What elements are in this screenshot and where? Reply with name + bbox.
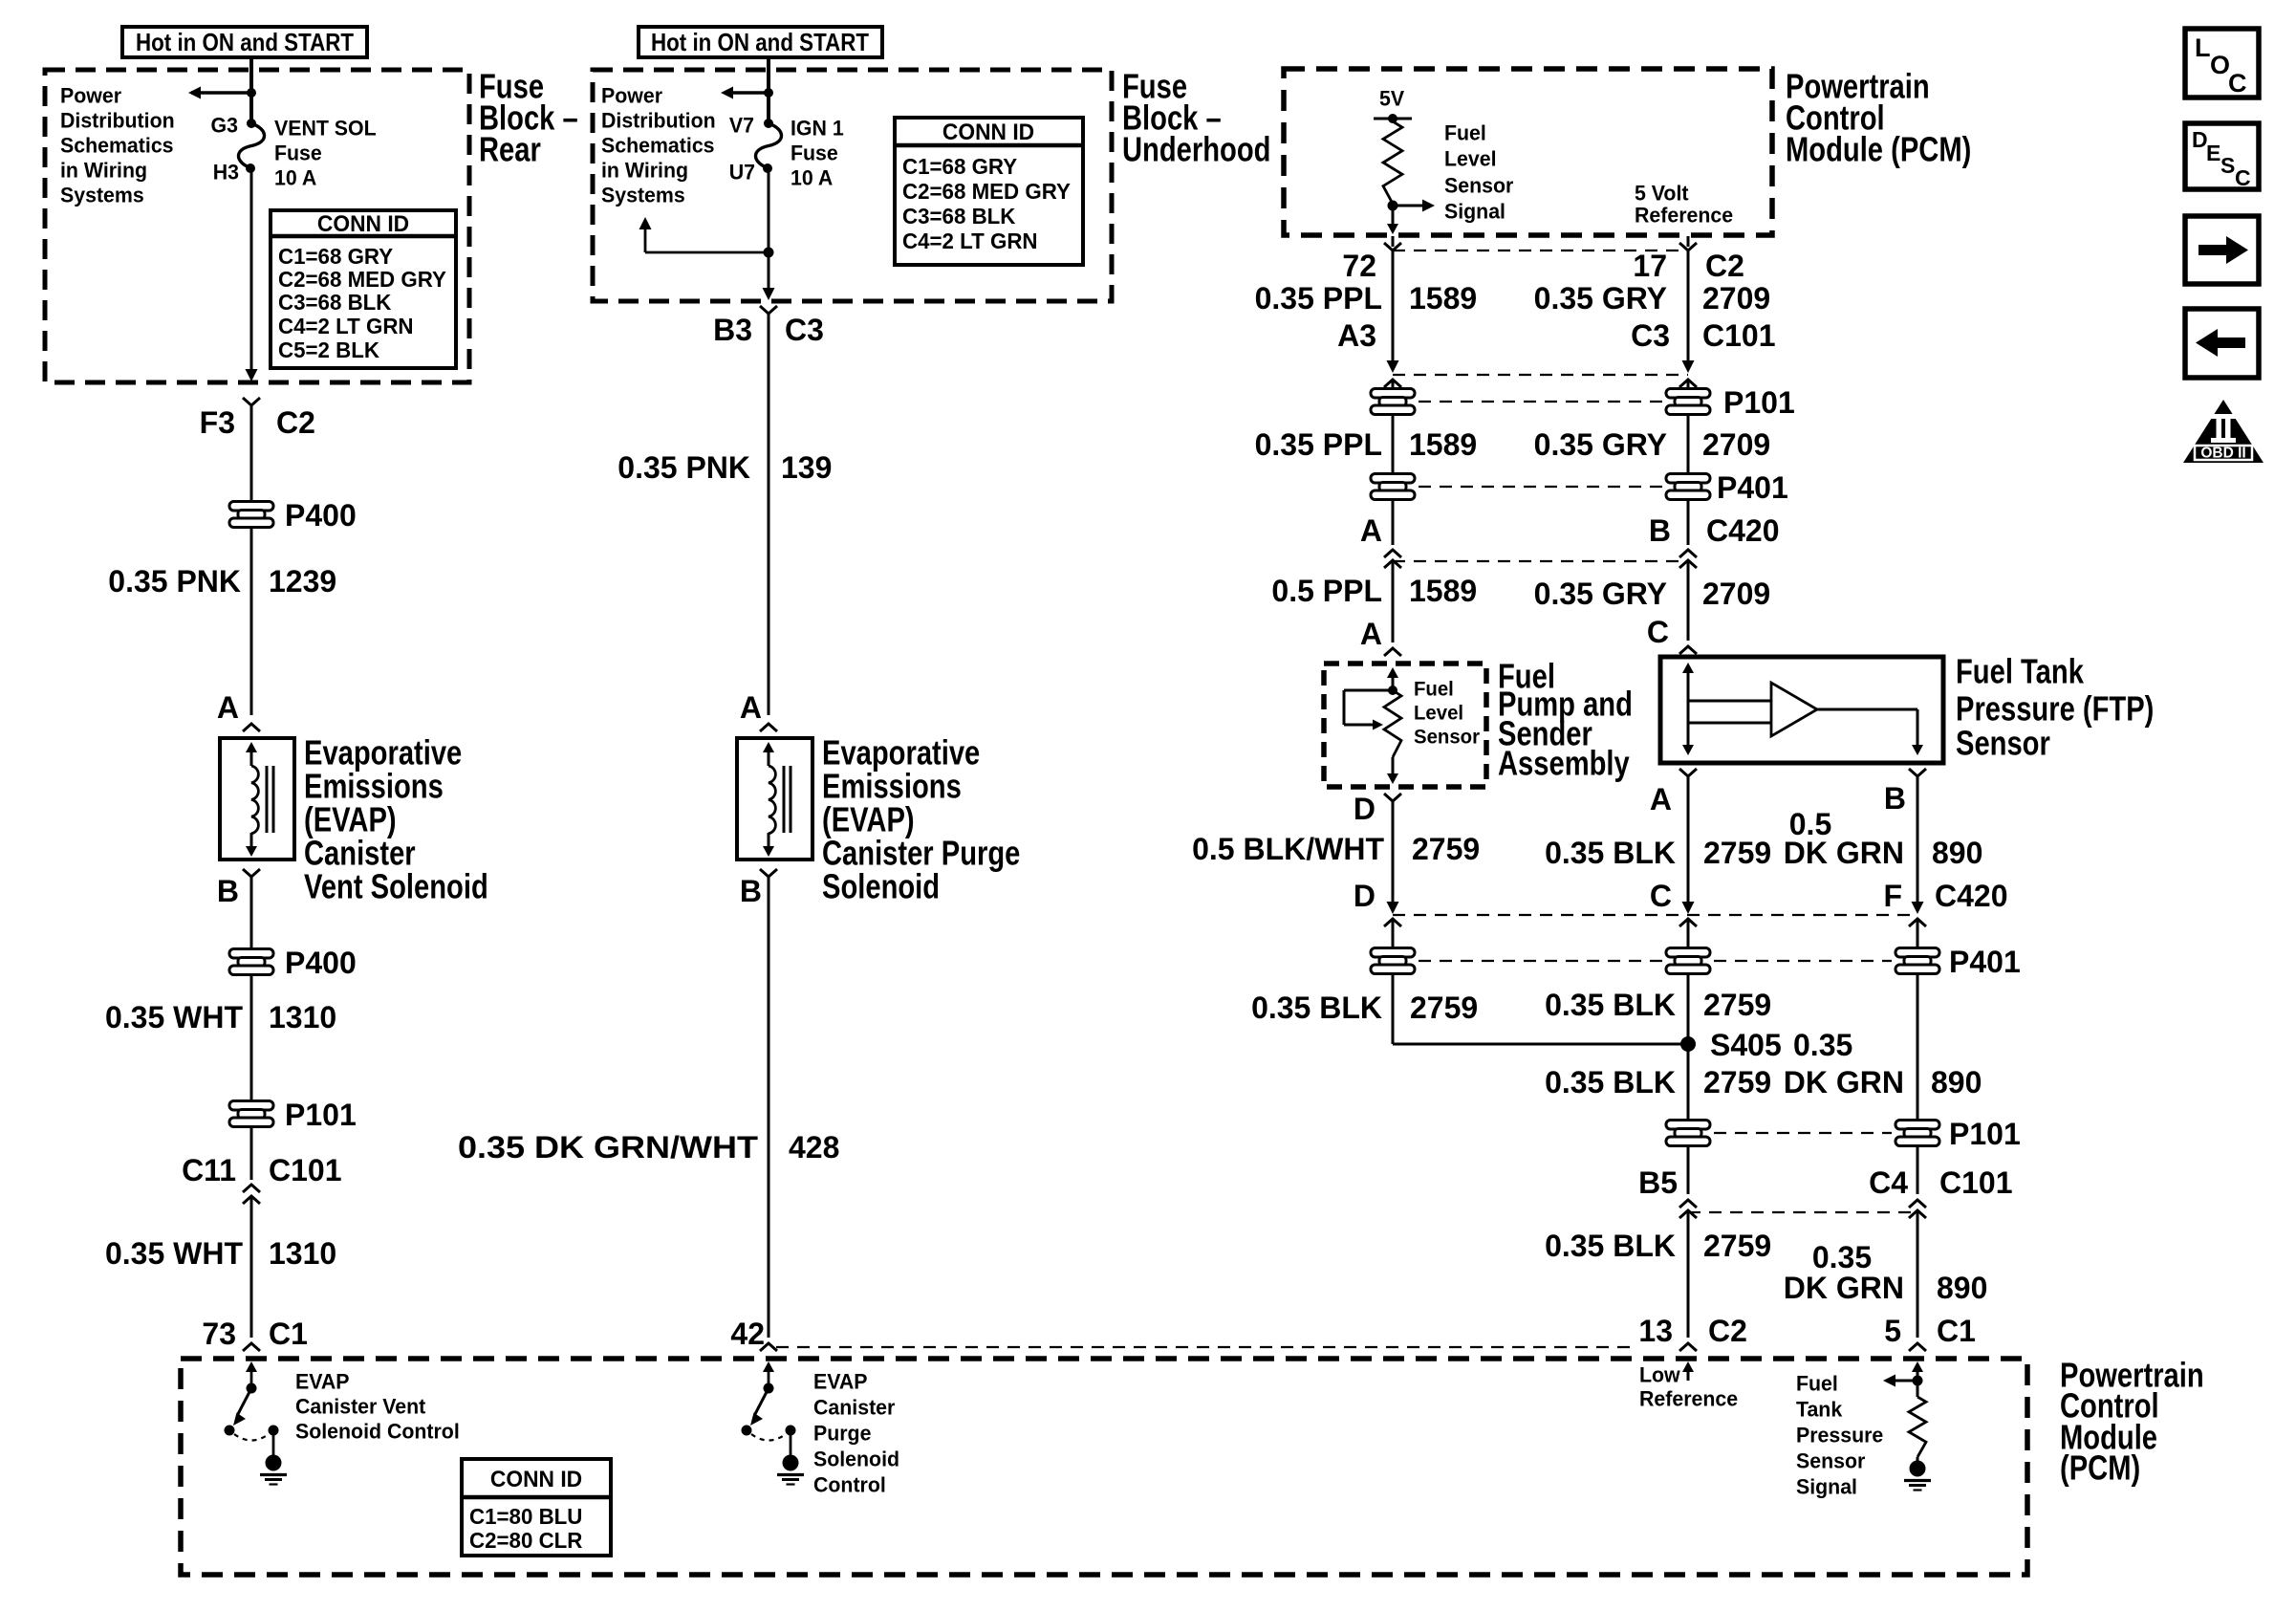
pin 72 label xyxy=(1342,249,1376,283)
icon: LOC button xyxy=(2185,29,2259,98)
svg-text:Sensor: Sensor xyxy=(1956,724,2050,763)
node: purge driver right contact xyxy=(786,1426,796,1436)
dashed box: Fuse Block - Rear xyxy=(45,70,469,382)
svg-text:P101: P101 xyxy=(1723,385,1795,420)
connector half at pin 42 xyxy=(760,1343,777,1351)
svg-text:C3=68 BLK: C3=68 BLK xyxy=(278,290,392,316)
pin A3 label xyxy=(1337,318,1376,353)
arrow into C101 at A3 xyxy=(1387,360,1399,373)
svg-text:0.35 PNK: 0.35 PNK xyxy=(108,564,241,599)
pin B5 label xyxy=(1638,1165,1678,1200)
label: Fuse Block - Underhood xyxy=(1122,67,1270,169)
svg-text:13: 13 xyxy=(1638,1314,1673,1348)
svg-text:0.35 BLK: 0.35 BLK xyxy=(1545,1065,1676,1099)
pin 42 label (PCM) xyxy=(730,1317,765,1351)
svg-text:C: C xyxy=(2228,69,2247,98)
svg-text:Pressure (FTP): Pressure (FTP) xyxy=(1956,689,2154,729)
pin A of fuel pump assembly xyxy=(1360,617,1401,656)
arrow into PCM at pin 5 xyxy=(1912,1361,1923,1381)
svg-text:O: O xyxy=(2210,51,2230,79)
label: 0.35 DK GRN 890 (4) xyxy=(1784,1240,1988,1305)
svg-text:Signal: Signal xyxy=(1796,1474,1857,1498)
icon: back arrow button xyxy=(2185,309,2259,378)
wire: P401 to C420 (GRY) xyxy=(1687,500,1690,545)
label box: Hot in ON and START (middle) xyxy=(639,27,882,57)
dashed box: fuel pump and sender assembly xyxy=(1324,664,1486,787)
connector C420 half below C xyxy=(1679,919,1697,926)
arrow down inside fuel level sensor xyxy=(1387,757,1398,784)
label: 0.35 WHT 1310 lower xyxy=(105,1236,336,1271)
node: junction dot at power distribution arrow (left) xyxy=(247,88,256,98)
svg-text:B: B xyxy=(1649,513,1671,548)
svg-text:D: D xyxy=(1354,792,1375,826)
node: junction dot at power distribution arrow (middle) xyxy=(764,88,773,98)
node: purge solenoid driver contact xyxy=(764,1383,774,1394)
svg-text:C2=68 MED GRY: C2=68 MED GRY xyxy=(278,267,446,293)
svg-text:A: A xyxy=(1360,617,1382,651)
svg-text:CONN ID: CONN ID xyxy=(942,120,1034,145)
svg-text:0.35 DK GRN/WHT: 0.35 DK GRN/WHT xyxy=(458,1130,759,1165)
connector C2 half at F3 xyxy=(243,398,260,405)
label: 0.5 BLK/WHT 2759 xyxy=(1192,832,1480,866)
wire 0.35 DK GRN 890 (segment 4) xyxy=(1917,1210,1919,1338)
pin C of FTP sensor xyxy=(1647,615,1697,654)
svg-text:0.35 WHT: 0.35 WHT xyxy=(105,1000,243,1034)
svg-text:V7: V7 xyxy=(729,113,754,137)
connector C101 half below A3 xyxy=(1384,380,1401,387)
svg-text:Rear: Rear xyxy=(479,130,541,169)
label: 5 Volt Reference xyxy=(1635,181,1733,227)
svg-text:B5: B5 xyxy=(1638,1165,1678,1200)
svg-text:Pressure: Pressure xyxy=(1796,1423,1883,1447)
wire 0.5 DK GRN 890 (B leg) xyxy=(1917,776,1919,906)
svg-text:Tank: Tank xyxy=(1796,1397,1843,1421)
pin V7 of fuse block underhood xyxy=(729,113,773,137)
svg-text:Fuel: Fuel xyxy=(1414,678,1454,700)
svg-text:in Wiring: in Wiring xyxy=(601,158,688,182)
5V supply rail xyxy=(1374,114,1412,123)
resistor: fuel level sensor element xyxy=(1384,690,1401,757)
arrow: into fuse block underhood bottom edge xyxy=(763,288,775,300)
svg-text:H3: H3 xyxy=(213,160,239,184)
svg-text:0.35: 0.35 xyxy=(1812,1240,1872,1274)
svg-text:C2: C2 xyxy=(1708,1314,1747,1348)
svg-text:C: C xyxy=(1650,879,1672,913)
wire: P101 to C101 (BLK) xyxy=(1687,1146,1690,1194)
wire 0.35 WHT 1310 upper xyxy=(250,975,253,1100)
component: EVAP canister purge solenoid box xyxy=(737,738,812,860)
svg-text:2759: 2759 xyxy=(1703,988,1771,1022)
svg-text:0.35 PNK: 0.35 PNK xyxy=(617,450,750,485)
svg-text:A3: A3 xyxy=(1337,318,1376,353)
wire 0.35 DK GRN/WHT 428 xyxy=(768,877,770,1338)
svg-text:890: 890 xyxy=(1932,836,1982,870)
table: CONN ID (PCM bottom) xyxy=(462,1459,611,1556)
grommet P400 (vent solenoid feed) xyxy=(229,498,357,533)
svg-text:1589: 1589 xyxy=(1409,281,1477,316)
grommet P101 (GRY wire) xyxy=(1666,385,1795,420)
grommet P401 (PPL wire) xyxy=(1371,474,1415,500)
label: Powertrain Control Module (PCM) top xyxy=(1786,67,1971,169)
wire: junction to fuse block edge xyxy=(768,252,770,290)
pin D of fuel pump assembly xyxy=(1354,792,1401,826)
wire 0.35 PNK 139 xyxy=(768,314,770,715)
connector C420 half below F xyxy=(1909,919,1926,926)
connector half at pin 13 xyxy=(1679,1343,1697,1351)
resistor: fuel level sensor pull-up xyxy=(1383,121,1402,204)
svg-text:Fuse: Fuse xyxy=(791,141,838,164)
svg-text:Distribution: Distribution xyxy=(601,108,716,132)
svg-text:Level: Level xyxy=(1444,146,1497,170)
wire 0.35 WHT 1310 lower xyxy=(250,1196,253,1338)
wire: A3 to P101 xyxy=(1392,380,1395,388)
stub wires to FTP amplifier xyxy=(1688,701,1771,723)
connector C3 half at B3 xyxy=(760,306,777,314)
svg-text:A: A xyxy=(1360,513,1382,548)
svg-text:(PCM): (PCM) xyxy=(2060,1448,2140,1488)
switch lever: purge solenoid control xyxy=(750,1388,769,1426)
component box: Fuel Tank Pressure (FTP) sensor xyxy=(1660,657,1943,763)
label: EVAP Canister Vent Solenoid Control xyxy=(295,1369,460,1443)
svg-text:S: S xyxy=(2220,153,2235,178)
wire: P401 to C420 (PPL) xyxy=(1392,500,1395,545)
svg-text:B: B xyxy=(740,874,762,908)
label: Fuel Level Sensor (inside box) xyxy=(1414,678,1480,748)
dashed arc: purge driver throw xyxy=(751,1434,786,1441)
svg-text:C4=2 LT GRN: C4=2 LT GRN xyxy=(902,229,1038,254)
dashed box: Powertrain Control Module (top) xyxy=(1284,69,1772,235)
svg-text:0.35 GRY: 0.35 GRY xyxy=(1534,427,1667,462)
svg-text:C101: C101 xyxy=(1939,1165,2013,1200)
arrow down inside vent solenoid xyxy=(246,833,257,857)
icon: OBD II triangle xyxy=(2183,400,2264,463)
pin B / C420 labels xyxy=(1649,513,1780,548)
icon: forward arrow button xyxy=(2185,216,2259,284)
svg-text:F: F xyxy=(1883,879,1902,913)
node: fuel level sensor wiper feed xyxy=(1388,686,1397,695)
svg-text:C3: C3 xyxy=(785,313,824,347)
component: EVAP canister vent solenoid box xyxy=(220,738,294,860)
label: 0.35 GRY 2709 (1) xyxy=(1534,281,1771,316)
label: 0.35 BLK 2759 (left) xyxy=(1251,991,1478,1025)
svg-text:IGN 1: IGN 1 xyxy=(791,116,844,140)
svg-text:Assembly: Assembly xyxy=(1498,744,1630,783)
svg-text:L: L xyxy=(2195,33,2211,62)
svg-text:0.35 GRY: 0.35 GRY xyxy=(1534,577,1667,611)
wire: C to P401 xyxy=(1687,919,1690,947)
svg-text:C4=2 LT GRN: C4=2 LT GRN xyxy=(278,314,414,339)
svg-text:C3: C3 xyxy=(1631,318,1670,353)
wire 0.35 GRY 2709 (segment 3) xyxy=(1687,560,1690,641)
arrow down to PCM edge (pin 72) xyxy=(1387,206,1398,234)
svg-text:Canister: Canister xyxy=(813,1395,896,1419)
svg-text:C420: C420 xyxy=(1935,879,2008,913)
svg-text:C1=68 GRY: C1=68 GRY xyxy=(278,244,393,270)
svg-text:Systems: Systems xyxy=(601,183,685,207)
arrow: to power distribution schematics (left) xyxy=(188,87,201,99)
pin F3 / C2 labels xyxy=(200,405,315,440)
svg-text:Sensor: Sensor xyxy=(1414,726,1480,748)
svg-text:72: 72 xyxy=(1342,249,1376,283)
node 5V label xyxy=(1379,86,1405,110)
connector half at pin 5 xyxy=(1909,1343,1926,1351)
pin 73 / C1 labels (PCM) xyxy=(202,1317,308,1351)
svg-text:139: 139 xyxy=(781,450,832,485)
dashed line: PCM C2 connector face xyxy=(1393,250,1688,251)
label: Evaporative Emissions (EVAP) Canister Purge Solenoid xyxy=(822,733,1020,906)
wire: B to P400 (return) xyxy=(250,877,253,948)
label: Fuel Tank Pressure (FTP) Sensor xyxy=(1956,652,2154,763)
arrow into C420 at C xyxy=(1682,902,1695,914)
connector C101 halves (BLK) xyxy=(1679,1200,1697,1218)
connector C101 half below C3 xyxy=(1679,380,1697,387)
label: 0.35 BLK 2759 (below S405) xyxy=(1545,1065,1771,1099)
svg-text:C101: C101 xyxy=(1702,318,1776,353)
wire: fuse feed from Hot box to V7 xyxy=(767,57,770,122)
svg-text:Power: Power xyxy=(601,83,663,107)
svg-text:VENT SOL: VENT SOL xyxy=(274,116,377,140)
label: 0.35 PNK 139 xyxy=(617,450,832,485)
svg-text:Distribution: Distribution xyxy=(60,108,175,132)
arrow: into fuse block rear bottom edge xyxy=(246,369,258,381)
svg-text:Low: Low xyxy=(1639,1362,1680,1386)
wire: FTP sensor signal arrow xyxy=(1891,1380,1917,1382)
svg-text:890: 890 xyxy=(1931,1065,1982,1099)
icon: DESC button xyxy=(2185,123,2259,190)
wire 0.35 PPL 1589 (segment 2) xyxy=(1392,415,1395,473)
svg-text:17: 17 xyxy=(1633,249,1667,283)
svg-text:0.5 PPL: 0.5 PPL xyxy=(1271,574,1382,608)
svg-text:Vent Solenoid: Vent Solenoid xyxy=(304,867,488,906)
label: 0.35 DK GRN/WHT 428 xyxy=(458,1130,839,1165)
svg-text:A: A xyxy=(217,690,239,725)
resistor: FTP signal pull (PCM) xyxy=(1909,1381,1926,1457)
svg-text:2709: 2709 xyxy=(1702,281,1770,316)
label box: Hot in ON and START (left) xyxy=(122,27,367,57)
switch lever: vent solenoid control xyxy=(233,1388,251,1426)
wire 0.35 GRY 2709 (segment 1) xyxy=(1687,250,1690,361)
arrow down inside FTP sensor (left leg) xyxy=(1682,745,1694,755)
svg-text:Fuel: Fuel xyxy=(1796,1371,1838,1395)
dashed line: C420 connector face (top) xyxy=(1393,560,1688,562)
text: IGN 1 Fuse 10 A xyxy=(791,116,844,189)
svg-text:0.35 BLK: 0.35 BLK xyxy=(1545,988,1676,1022)
svg-text:1310: 1310 xyxy=(269,1236,336,1271)
connector C2 half at pin 17 xyxy=(1679,236,1697,250)
svg-text:C2: C2 xyxy=(276,405,315,440)
svg-text:U7: U7 xyxy=(729,160,755,184)
table: CONN ID (fuse block underhood) xyxy=(895,118,1083,265)
label: 0.35 GRY 2709 (2) xyxy=(1534,427,1771,462)
text: VENT SOL Fuse 10 A xyxy=(274,116,377,189)
svg-text:0.35 BLK: 0.35 BLK xyxy=(1545,836,1676,870)
node: fuel level sensor signal tap xyxy=(1388,201,1398,211)
connector C420 half below D xyxy=(1384,919,1401,926)
grommet P401 (GRY wire) xyxy=(1666,470,1788,505)
svg-text:DK GRN: DK GRN xyxy=(1784,836,1904,870)
svg-text:0.35 PPL: 0.35 PPL xyxy=(1255,427,1382,462)
wire: F3 to P400 xyxy=(250,405,253,501)
label: 0.35 PNK 1239 xyxy=(108,564,336,599)
svg-text:Fuel Tank: Fuel Tank xyxy=(1956,652,2085,691)
pin 13 / C2 labels (PCM) xyxy=(1638,1314,1747,1348)
svg-text:DK GRN: DK GRN xyxy=(1784,1065,1904,1099)
svg-text:Signal: Signal xyxy=(1444,199,1505,223)
svg-text:EVAP: EVAP xyxy=(813,1369,867,1393)
svg-text:Sensor: Sensor xyxy=(1796,1448,1866,1472)
svg-text:2759: 2759 xyxy=(1412,832,1480,866)
svg-text:5V: 5V xyxy=(1379,86,1405,110)
svg-text:10 A: 10 A xyxy=(791,165,834,189)
svg-text:C1: C1 xyxy=(1937,1314,1976,1348)
arrow down inside FTP sensor (output leg) xyxy=(1912,745,1923,755)
svg-text:F3: F3 xyxy=(200,405,235,440)
svg-text:P400: P400 xyxy=(285,498,357,533)
svg-text:C11: C11 xyxy=(182,1153,236,1187)
wire: FTP amplifier output xyxy=(1817,709,1917,745)
wire: power distribution branch (middle) xyxy=(725,91,769,94)
dashed line: PCM connector face xyxy=(776,1346,1637,1348)
wire 0.35 PNK 1239 xyxy=(250,528,253,715)
svg-text:C5=2 BLK: C5=2 BLK xyxy=(278,337,379,363)
svg-text:C2=80 CLR: C2=80 CLR xyxy=(469,1528,583,1554)
wire: branch to power distribution (middle) xyxy=(645,222,769,252)
connector C1 half at pin 73 xyxy=(243,1343,260,1351)
arrow into C420 at F xyxy=(1912,902,1924,914)
pin 5 / C1 labels (PCM) xyxy=(1884,1314,1976,1348)
pin C4 / C101 labels xyxy=(1869,1165,2012,1200)
label: Evaporative Emissions (EVAP) Canister Vent Solenoid xyxy=(304,733,488,906)
svg-text:C4: C4 xyxy=(1869,1165,1908,1200)
connector C101 halves (DK GRN) xyxy=(1909,1200,1926,1218)
table: CONN ID (fuse block rear) xyxy=(271,210,456,368)
pin B3 / C3 labels xyxy=(713,313,824,347)
dashed line: C420 connector face (bottom) xyxy=(1393,914,1917,916)
svg-text:Systems: Systems xyxy=(60,183,144,207)
pin B of FTP sensor xyxy=(1884,769,1926,816)
wire 0.35 GRY 2709 (segment 2) xyxy=(1687,415,1690,473)
svg-text:OBD II: OBD II xyxy=(2200,446,2245,462)
label: 0.35 BLK 2759 (middle) xyxy=(1545,988,1771,1022)
wire 0.35 DK GRN 890 (right) xyxy=(1917,974,1919,1120)
svg-text:P401: P401 xyxy=(1717,470,1788,505)
fuse VENT SOL 10A symbol xyxy=(238,123,264,168)
dashed line: C101 connector face (top) xyxy=(1393,374,1688,376)
svg-text:73: 73 xyxy=(202,1317,236,1351)
wiper loop of fuel level sensor xyxy=(1344,690,1393,725)
svg-text:Fuse: Fuse xyxy=(274,141,322,164)
ground: purge solenoid driver xyxy=(777,1455,804,1485)
dashed box: Powertrain Control Module (bottom) xyxy=(181,1359,2027,1575)
svg-text:0.35 BLK: 0.35 BLK xyxy=(1545,1229,1676,1263)
dashed line: C101 connector face (bottom) xyxy=(1688,1211,1917,1213)
svg-text:C: C xyxy=(1647,615,1669,649)
text: Power Distribution Schematics in Wiring Systems (middle) xyxy=(601,83,716,207)
svg-text:2709: 2709 xyxy=(1702,427,1770,462)
pin C3 / C101 labels xyxy=(1631,318,1775,353)
svg-text:CONN ID: CONN ID xyxy=(317,211,409,237)
svg-text:2759: 2759 xyxy=(1410,991,1478,1025)
svg-text:C2=68 MED GRY: C2=68 MED GRY xyxy=(902,179,1071,205)
svg-text:10 A: 10 A xyxy=(274,165,317,189)
pin G3 of fuse block rear xyxy=(211,113,256,137)
dashed line: harness P101 lower xyxy=(1714,1132,1892,1134)
svg-text:0.35 PPL: 0.35 PPL xyxy=(1255,281,1382,316)
svg-text:5 Volt: 5 Volt xyxy=(1635,181,1688,205)
text: Power Distribution Schematics in Wiring Systems (left) xyxy=(60,83,175,207)
wire: U7 down to branch junction xyxy=(768,168,770,252)
node: junction below IGN 1 fuse xyxy=(764,248,774,258)
label: 0.35 PPL 1589 (1) xyxy=(1255,281,1478,316)
label: 0.35 DK GRN 890 (upper) xyxy=(1784,1028,1982,1099)
svg-text:1589: 1589 xyxy=(1409,427,1477,462)
ground: FTP signal (PCM) xyxy=(1904,1461,1931,1491)
svg-text:C420: C420 xyxy=(1706,513,1780,548)
wire: fuse feed from Hot box to G3 xyxy=(249,57,253,122)
svg-text:B: B xyxy=(1884,781,1906,816)
dashed box: Fuse Block - Underhood xyxy=(593,70,1112,301)
grommet P101 (left) xyxy=(229,1098,357,1132)
splice S405 xyxy=(1680,1028,1782,1062)
svg-text:42: 42 xyxy=(730,1317,765,1351)
svg-text:Underhood: Underhood xyxy=(1122,130,1270,169)
label: 0.5 DK GRN 890 (B leg) xyxy=(1784,807,1983,870)
label: 0.35 PPL 1589 (2) xyxy=(1255,427,1478,462)
svg-text:0.35 BLK: 0.35 BLK xyxy=(1251,991,1382,1025)
coil of vent solenoid xyxy=(251,766,273,834)
label: Fuse Block - Rear xyxy=(479,67,578,169)
label: 0.5 PPL 1589 (3) xyxy=(1271,574,1477,608)
label: EVAP Canister Purge Solenoid Control xyxy=(813,1369,899,1496)
arrow into C420 at D xyxy=(1387,902,1399,914)
svg-text:Purge: Purge xyxy=(813,1421,871,1445)
svg-text:1310: 1310 xyxy=(269,1000,336,1034)
arrow up inside vent solenoid xyxy=(246,742,257,766)
pin A of FTP sensor xyxy=(1650,769,1697,816)
arrow up inside FTP sensor xyxy=(1682,663,1694,745)
arrow up: power distribution branch (middle) xyxy=(639,217,652,229)
label: Fuel Level Sensor Signal xyxy=(1444,120,1514,223)
wire 0.5 BLK/WHT 2759 xyxy=(1392,801,1395,906)
svg-text:D: D xyxy=(1354,879,1375,913)
label: Fuel Pump and Sender Assembly xyxy=(1498,657,1633,783)
pin A of EVAP canister vent solenoid xyxy=(217,690,260,731)
wire: C3 to P101 xyxy=(1687,380,1690,388)
arrow into C101 at C3 xyxy=(1682,360,1695,373)
fuse IGN 1 10A symbol xyxy=(755,123,781,168)
svg-text:C1=80 BLU: C1=80 BLU xyxy=(469,1504,582,1530)
svg-text:Control: Control xyxy=(813,1472,886,1496)
dashed line: harness P101 xyxy=(1419,401,1662,403)
node: purge driver left contact xyxy=(742,1426,752,1436)
svg-text:Schematics: Schematics xyxy=(60,133,174,157)
svg-text:G3: G3 xyxy=(211,113,238,137)
grommet P101 (PPL wire) xyxy=(1371,389,1415,415)
svg-text:A: A xyxy=(1650,782,1672,816)
svg-text:E: E xyxy=(2206,141,2220,165)
wire: power distribution branch (left) xyxy=(191,91,251,94)
svg-text:Solenoid: Solenoid xyxy=(822,867,940,906)
label: 0.35 WHT 1310 upper xyxy=(105,1000,336,1034)
svg-text:P101: P101 xyxy=(1949,1117,2021,1151)
svg-text:890: 890 xyxy=(1937,1271,1987,1305)
svg-text:Reference: Reference xyxy=(1639,1386,1738,1410)
svg-text:CONN ID: CONN ID xyxy=(490,1467,582,1492)
svg-text:C101: C101 xyxy=(269,1153,342,1187)
node: vent solenoid driver contact xyxy=(247,1383,257,1394)
grommet P401 (BLK/WHT wire) xyxy=(1371,948,1415,974)
svg-text:B: B xyxy=(217,874,239,908)
